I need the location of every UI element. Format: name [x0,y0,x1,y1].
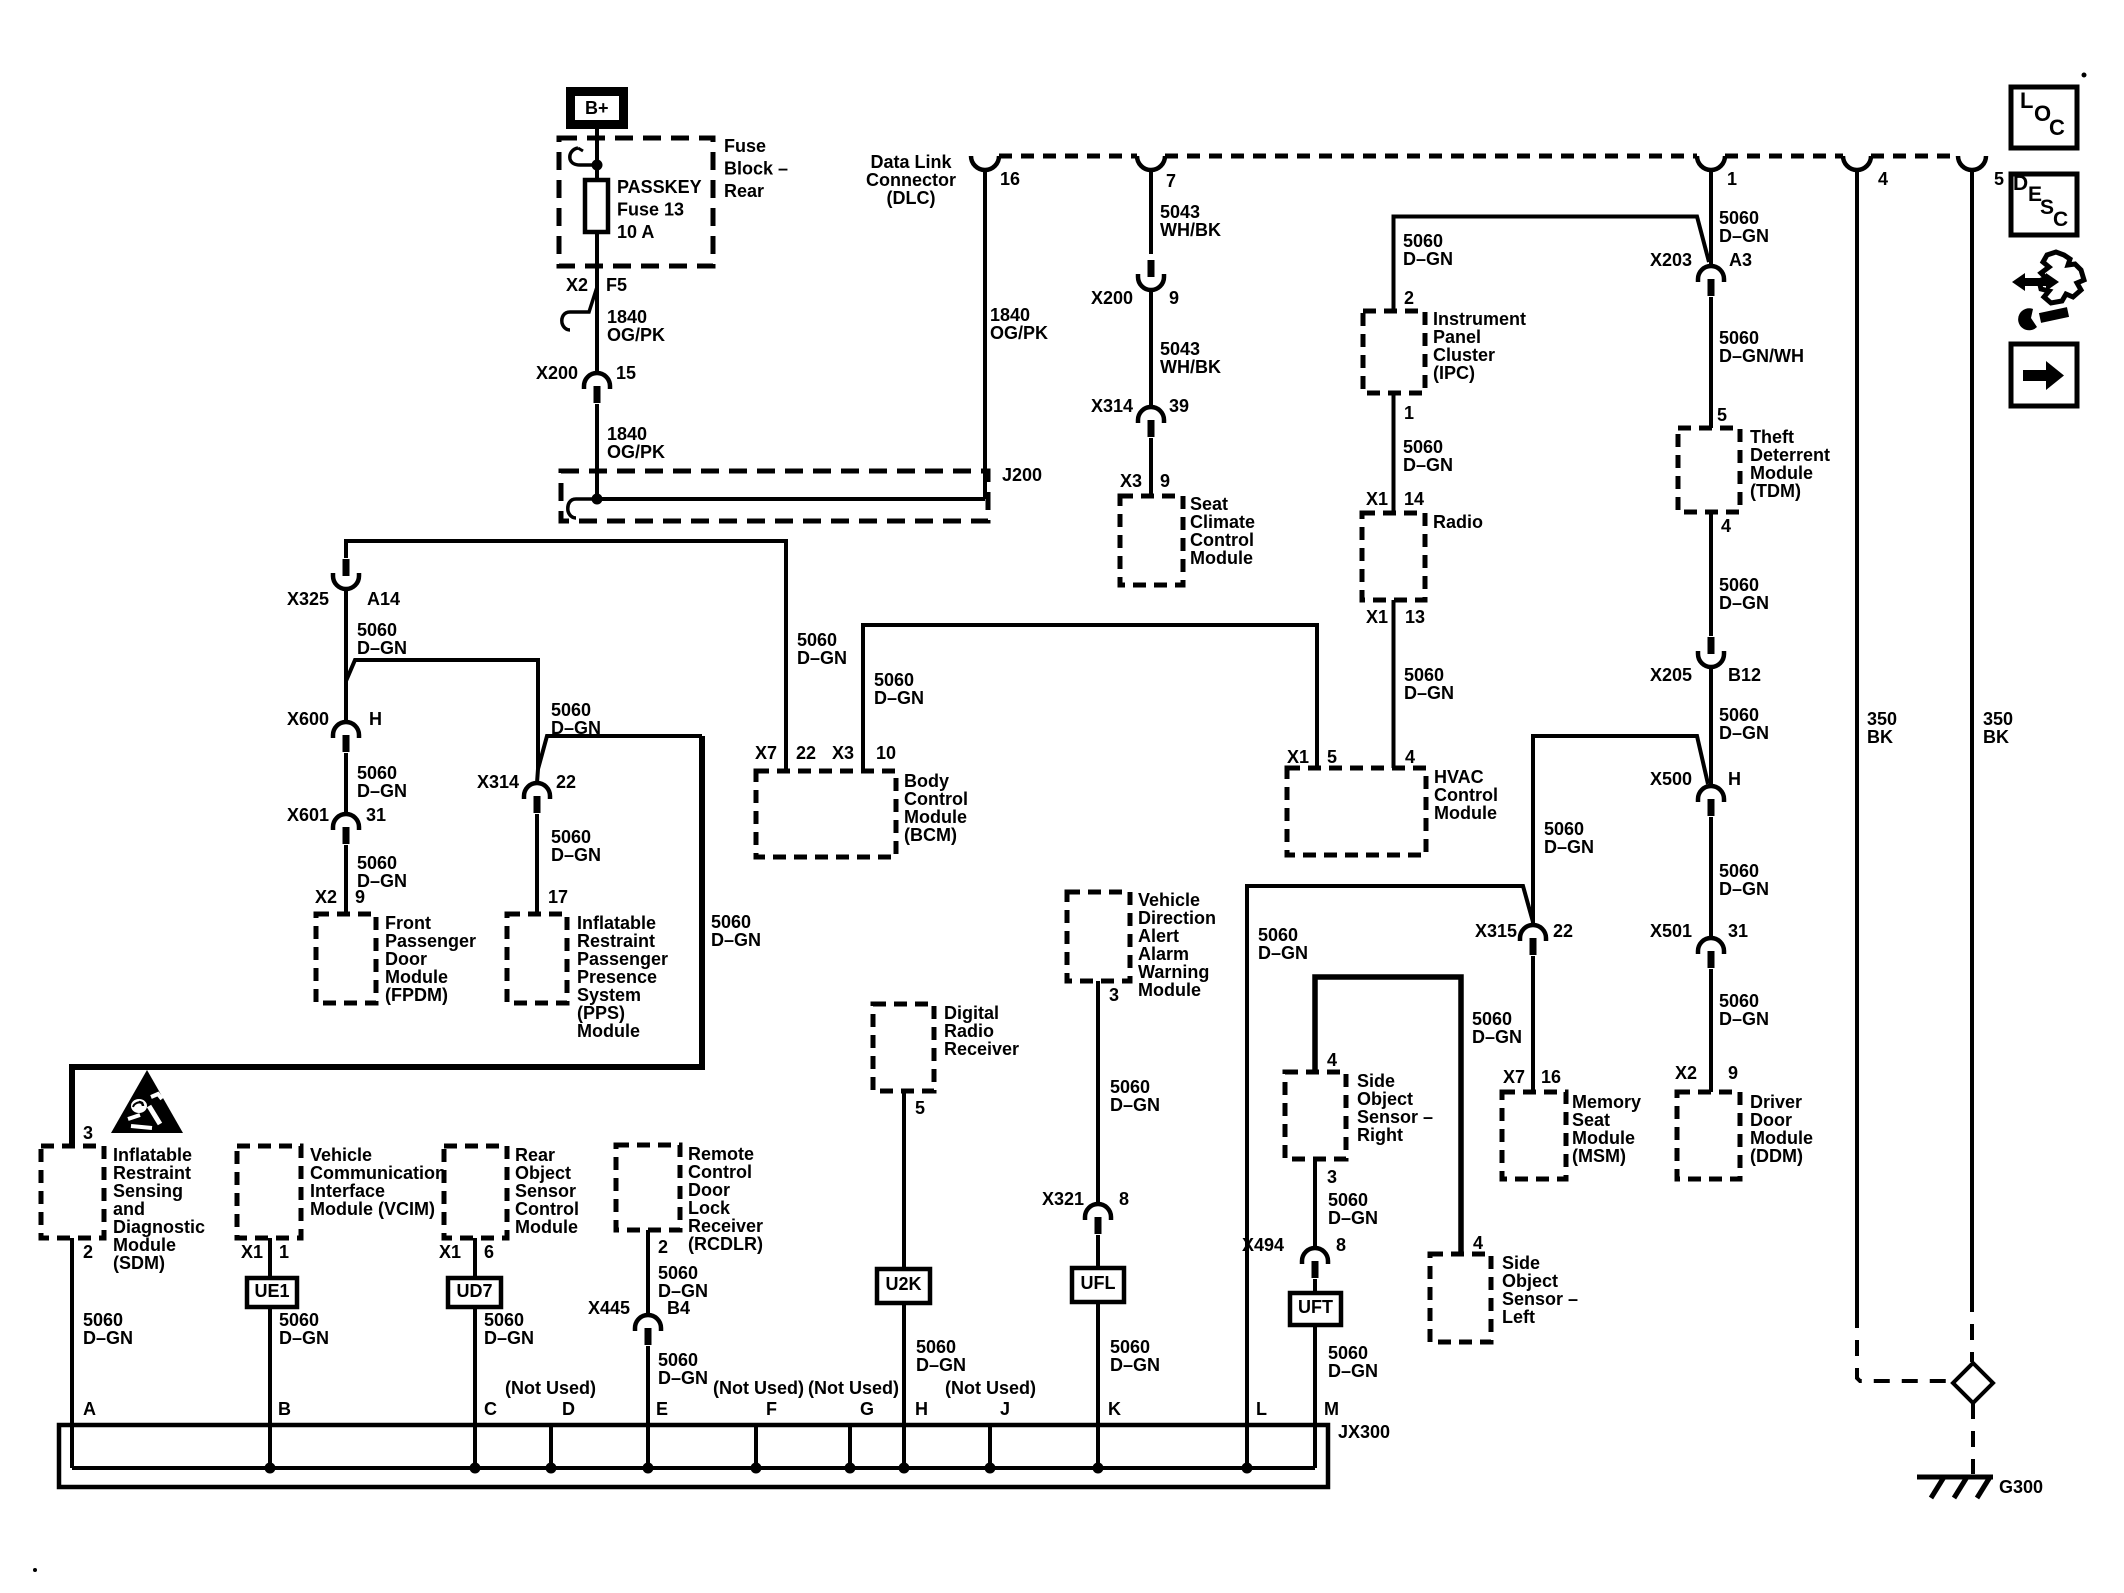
svg-text:D: D [2013,172,2028,195]
clip connector at fuse block feed [570,148,597,165]
wire DRR to U2K [902,1091,906,1269]
svg-text:Seat: Seat [1572,1110,1610,1130]
wire X601 to FPDM [344,845,348,914]
svg-text:A3: A3 [1729,250,1752,270]
wire X500 branch to X315 [1533,736,1708,925]
wire DLC7 to X200 [1149,170,1153,254]
wire label 5060 D-GN [1110,1077,1160,1115]
wire label 5060 D-GN [1328,1190,1378,1228]
svg-text:5060: 5060 [484,1310,524,1330]
svg-text:5060: 5060 [551,700,591,720]
svg-text:Object: Object [1502,1271,1558,1291]
wire DLC5 ground run 350 BK [1970,170,1974,1362]
svg-text:Panel: Panel [1433,327,1481,347]
svg-text:B4: B4 [667,1298,690,1318]
svg-text:C: C [484,1399,497,1419]
module HVAC Control Module [1287,767,1498,855]
icon data link communication [2012,252,2084,330]
module Seat Climate Control Module [1120,494,1255,585]
svg-text:5060: 5060 [916,1337,956,1357]
wire X200 to J200 [595,404,599,499]
svg-text:B12: B12 [1728,665,1761,685]
svg-text:6: 6 [484,1242,494,1262]
wire X315 to MSM [1531,956,1535,1092]
wire X314 to PPS [535,814,539,914]
inline connector X494 pin 8 [1242,1235,1346,1278]
svg-text:Data Link: Data Link [870,152,952,172]
svg-text:Radio: Radio [1433,512,1483,532]
module Digital Radio Receiver [873,1003,1019,1091]
pin label 4 [1473,1233,1483,1253]
svg-text:B: B [278,1399,291,1419]
wire DLC4 ground run 350 BK [1857,170,1952,1381]
svg-text:Control: Control [904,789,968,809]
svg-text:D–GN: D–GN [1404,683,1454,703]
bus stub J [988,1425,992,1468]
svg-text:Module: Module [1750,463,1813,483]
svg-text:D–GN: D–GN [1472,1027,1522,1047]
svg-text:A14: A14 [367,589,400,609]
svg-text:Fuse: Fuse [724,136,766,156]
wire X600 to X601 [344,753,348,814]
wire label 5060 D-GN [357,763,407,801]
module Instrument Panel Cluster IPC [1363,309,1526,393]
svg-text:Module: Module [385,967,448,987]
svg-text:D–GN: D–GN [1328,1208,1378,1228]
wire VDAAWM to X321 [1096,981,1100,1204]
svg-text:J200: J200 [1002,465,1042,485]
svg-text:Sensing: Sensing [113,1181,183,1201]
wire label 5060 D-GN [1472,1009,1522,1047]
svg-text:Module: Module [113,1235,176,1255]
svg-text:HVAC: HVAC [1434,767,1484,787]
svg-text:4: 4 [1721,516,1731,536]
wire X205 to X500 [1709,667,1713,786]
svg-text:X7: X7 [755,743,777,763]
svg-text:X203: X203 [1650,250,1692,270]
svg-text:JX300: JX300 [1338,1422,1390,1442]
svg-text:(BCM): (BCM) [904,825,957,845]
wire X314 to seat climate module [1149,438,1153,494]
svg-text:(Not Used): (Not Used) [945,1378,1036,1398]
svg-text:WH/BK: WH/BK [1160,220,1221,240]
svg-text:D–GN: D–GN [1719,879,1769,899]
wire label 5060 D-GN [1719,575,1769,613]
svg-text:7: 7 [1166,171,1176,191]
svg-text:5043: 5043 [1160,202,1200,222]
pin label 2 [83,1242,93,1262]
bus pin letters [83,1399,1339,1419]
RPO code UFT [1290,1293,1341,1325]
svg-text:X314: X314 [477,772,519,792]
svg-text:X200: X200 [536,363,578,383]
svg-text:D–GN: D–GN [1403,455,1453,475]
wire label 350 BK [1983,709,2013,747]
wire diamond to ground [1971,1403,1975,1474]
svg-text:Fuse 13: Fuse 13 [617,200,684,220]
svg-text:13: 13 [1405,607,1425,627]
svg-text:Digital: Digital [944,1003,999,1023]
svg-text:E: E [656,1399,668,1419]
svg-text:D–GN: D–GN [1719,593,1769,613]
wire label 5060 D-GN [1719,991,1769,1029]
pin label X1 1 [241,1242,289,1262]
wire UD7 to bus C [473,1307,477,1468]
wire SDM to bus A [70,1238,74,1468]
svg-text:5060: 5060 [1719,328,1759,348]
svg-text:5060: 5060 [711,912,751,932]
svg-text:Alarm: Alarm [1138,944,1189,964]
svg-text:Front: Front [385,913,431,933]
stray dot bottom left [33,1568,37,1572]
icon LOC box [2011,87,2077,148]
svg-text:Seat: Seat [1190,494,1228,514]
svg-text:4: 4 [1405,747,1415,767]
svg-text:22: 22 [556,772,576,792]
svg-text:Rear: Rear [724,181,764,201]
wire label 5060 D-GN [658,1350,708,1388]
junction J200 [592,494,603,505]
svg-text:Module: Module [1434,803,1497,823]
svg-text:Receiver: Receiver [688,1216,763,1236]
svg-text:Driver: Driver [1750,1092,1802,1112]
svg-text:Restraint: Restraint [577,931,655,951]
inline connector X314 pin 39 [1091,396,1189,437]
wire UFL to bus K [1096,1302,1100,1468]
svg-text:G300: G300 [1999,1477,2043,1497]
svg-text:5060: 5060 [1404,665,1444,685]
splice pack J200 dashed box [561,465,1042,521]
wire U2K to bus H [902,1303,906,1468]
wire fuse to X200 [595,232,599,373]
svg-text:L: L [2020,88,2033,113]
wire DLC pin16 drop [983,170,987,499]
inline connector X314 pin 22 [477,772,576,813]
svg-text:5060: 5060 [658,1263,698,1283]
pin label X7 16 [1503,1067,1561,1087]
wire bus L to X315 [1247,886,1533,1468]
svg-text:Side: Side [1357,1071,1395,1091]
bus stub G [848,1425,852,1468]
svg-text:D–GN: D–GN [1258,943,1308,963]
pin label 3 [1109,985,1119,1005]
bus stub D [549,1425,553,1468]
svg-text:UFL: UFL [1081,1273,1116,1293]
inline connector X601 pin 31 [287,805,386,844]
svg-text:4: 4 [1473,1233,1483,1253]
svg-text:D–GN: D–GN [1719,226,1769,246]
svg-text:Side: Side [1502,1253,1540,1273]
svg-text:Theft: Theft [1750,427,1794,447]
svg-text:X2: X2 [315,887,337,907]
svg-text:X1: X1 [1366,489,1388,509]
inline connector X600 pin H [287,709,382,752]
svg-text:Receiver: Receiver [944,1039,1019,1059]
svg-text:C: C [2049,115,2065,140]
pin label 3 [1327,1167,1337,1187]
svg-text:F: F [766,1399,777,1419]
svg-text:5060: 5060 [1544,819,1584,839]
bus stub F [754,1425,758,1468]
svg-text:D–GN: D–GN [1110,1095,1160,1115]
wire label 5060 D-GN [1328,1343,1378,1381]
svg-text:WH/BK: WH/BK [1160,357,1221,377]
svg-text:X200: X200 [1091,288,1133,308]
svg-text:9: 9 [1160,471,1170,491]
svg-text:X501: X501 [1650,921,1692,941]
module Theft Deterrent Module TDM [1678,427,1830,512]
svg-text:Sensor –: Sensor – [1357,1107,1433,1127]
svg-text:D–GN: D–GN [1719,1009,1769,1029]
pin label 4 [1721,516,1731,536]
svg-text:BK: BK [1867,727,1893,747]
svg-text:5060: 5060 [357,763,397,783]
wire SOS-R to X494 [1313,1159,1317,1248]
svg-text:350: 350 [1867,709,1897,729]
junction at fuse block feed [592,160,603,171]
svg-text:Door: Door [688,1180,730,1200]
svg-text:Memory: Memory [1572,1092,1641,1112]
inline connector X501 pin 31 [1650,921,1748,968]
wire label 5060 D-GN [1719,861,1769,899]
splice diamond [1953,1363,1993,1403]
fuse PASSKEY Fuse 13 10 A [585,177,702,242]
ground G300 [1917,1477,2043,1498]
svg-text:X7: X7 [1503,1067,1525,1087]
icon forward arrow box [2011,344,2077,406]
svg-text:Module: Module [1750,1128,1813,1148]
inline connector X203 pin A3 [1650,250,1752,296]
svg-text:5060: 5060 [1110,1337,1150,1357]
stray dot top right [2082,73,2087,78]
wire label 5060 D-GN [1403,437,1453,475]
svg-text:U2K: U2K [885,1274,921,1294]
svg-text:Module (VCIM): Module (VCIM) [310,1199,435,1219]
wire label 5060 D-GN/WH [1719,328,1804,366]
svg-text:Diagnostic: Diagnostic [113,1217,205,1237]
svg-text:Control: Control [1434,785,1498,805]
svg-text:X494: X494 [1242,1235,1284,1255]
svg-text:X205: X205 [1650,665,1692,685]
svg-text:2: 2 [83,1242,93,1262]
power symbol B+ [571,92,624,125]
svg-text:Interface: Interface [310,1181,385,1201]
wire X325 to BCM X7-22 [346,541,786,771]
svg-text:9: 9 [355,887,365,907]
svg-text:D–GN: D–GN [1110,1355,1160,1375]
svg-text:X500: X500 [1650,769,1692,789]
wire label 5060 D-GN [711,912,761,950]
svg-text:Module: Module [577,1021,640,1041]
wire label 5060 D-GN [551,827,601,865]
inline connector X200 pin 9 [1091,260,1179,308]
pin labels HVAC X1 5 4 [1287,747,1415,767]
svg-text:X2: X2 [566,275,588,295]
wire label 5060 D-GN [279,1310,329,1348]
svg-text:D–GN: D–GN [797,648,847,668]
svg-text:Climate: Climate [1190,512,1255,532]
pin label X2 9 [1675,1063,1738,1083]
svg-text:5060: 5060 [797,630,837,650]
svg-text:(SDM): (SDM) [113,1253,165,1273]
wire B+ to fuse [595,129,599,181]
svg-text:5060: 5060 [1110,1077,1150,1097]
svg-text:3: 3 [1109,985,1119,1005]
svg-text:5060: 5060 [551,827,591,847]
module Remote Control Door Lock Receiver RCDLR [616,1144,763,1254]
svg-text:5060: 5060 [1719,208,1759,228]
svg-text:5060: 5060 [1258,925,1298,945]
svg-text:5: 5 [1717,405,1727,425]
wire X494 to UFT [1313,1279,1317,1293]
svg-text:5060: 5060 [1403,231,1443,251]
wire label 5060 D-GN [1404,665,1454,703]
svg-text:Module: Module [1138,980,1201,1000]
wire label 5060 D-GN [1110,1337,1160,1375]
inline connector X315 pin 22 [1475,921,1573,955]
svg-text:Sensor: Sensor [515,1181,576,1201]
svg-text:1: 1 [1727,169,1737,189]
svg-text:5060: 5060 [1719,575,1759,595]
svg-text:Sensor –: Sensor – [1502,1289,1578,1309]
svg-text:Lock: Lock [688,1198,731,1218]
pin label 2 [1404,288,1414,308]
wire X314 junction to SDM feed [538,736,702,769]
svg-text:(PPS): (PPS) [577,1003,625,1023]
clip connector X2-F5 [562,287,597,330]
svg-text:(Not Used): (Not Used) [808,1378,899,1398]
svg-text:9: 9 [1728,1063,1738,1083]
svg-text:Vehicle: Vehicle [310,1145,372,1165]
wire label 5060 D-GN [1403,231,1453,269]
svg-text:Module: Module [1190,548,1253,568]
svg-text:X600: X600 [287,709,329,729]
svg-text:1: 1 [279,1242,289,1262]
svg-text:(Not Used): (Not Used) [505,1378,596,1398]
svg-text:1: 1 [1404,403,1414,423]
svg-text:Vehicle: Vehicle [1138,890,1200,910]
svg-text:X314: X314 [1091,396,1133,416]
svg-text:D–GN: D–GN [874,688,924,708]
wire X445 to bus E [646,1346,650,1468]
DLC dotted bus wire [999,154,1958,159]
svg-text:16: 16 [1000,169,1020,189]
wire X203 to TDM [1709,297,1713,428]
wire X200 to X314 [1149,290,1153,407]
wire label 5060 D-GN [357,853,407,891]
module Inflatable Restraint PPS Module [507,913,668,1041]
svg-text:OG/PK: OG/PK [607,442,665,462]
module Body Control Module BCM [756,771,968,857]
svg-text:D–GN: D–GN [658,1368,708,1388]
wire X325 to X600 [344,589,348,722]
svg-text:39: 39 [1169,396,1189,416]
svg-text:(Not Used): (Not Used) [713,1378,804,1398]
wire Radio to HVAC [1392,600,1396,768]
DLC terminal 5 [1958,156,2004,189]
svg-text:(RCDLR): (RCDLR) [688,1234,763,1254]
module Driver Door Module DDM [1677,1092,1813,1179]
svg-text:System: System [577,985,641,1005]
svg-text:5060: 5060 [357,853,397,873]
inline connector X445 pin B4 [588,1298,690,1345]
svg-text:X3: X3 [832,743,854,763]
svg-text:16: 16 [1541,1067,1561,1087]
svg-text:X321: X321 [1042,1189,1084,1209]
svg-text:D–GN: D–GN [484,1328,534,1348]
svg-text:14: 14 [1404,489,1424,509]
svg-text:Module: Module [515,1217,578,1237]
svg-text:4: 4 [1878,169,1888,189]
wire IPC to Radio [1392,393,1396,513]
svg-text:BK: BK [1983,727,2009,747]
svg-text:Inflatable: Inflatable [113,1145,192,1165]
svg-text:2: 2 [1404,288,1414,308]
wire J200 bus [597,497,985,501]
svg-text:1840: 1840 [607,307,647,327]
inline connector X500 pin H [1650,769,1741,816]
wire BCM X3-10 to HVAC X1-5 [863,625,1317,771]
svg-text:9: 9 [1169,288,1179,308]
svg-text:OG/PK: OG/PK [990,323,1048,343]
wire label 5060 D-GN [357,620,407,658]
svg-text:5060: 5060 [1719,861,1759,881]
svg-text:D–GN: D–GN [1328,1361,1378,1381]
inline connector X325 pin A14 [287,559,400,609]
svg-text:F5: F5 [606,275,627,295]
svg-text:X325: X325 [287,589,329,609]
svg-text:Door: Door [1750,1110,1792,1130]
wire label 1840 OG/PK [607,307,665,345]
svg-text:350: 350 [1983,709,2013,729]
svg-text:B+: B+ [585,98,609,118]
DLC terminal 7 [1137,156,1176,191]
svg-text:Object: Object [1357,1089,1413,1109]
pin label 17 [548,887,568,907]
svg-text:X3: X3 [1120,471,1142,491]
svg-text:1840: 1840 [990,305,1030,325]
svg-text:D–GN: D–GN [83,1328,133,1348]
svg-text:Radio: Radio [944,1021,994,1041]
svg-text:5060: 5060 [1719,991,1759,1011]
module Vehicle Direction Alert Alarm Warning Module [1067,890,1216,1000]
wire heavy run to SDM [72,736,702,1146]
svg-text:5060: 5060 [83,1310,123,1330]
pin label X1 6 [439,1242,494,1262]
wire label 5060 D-GN [551,700,601,738]
wire ROSCM to UD7 [473,1238,477,1278]
svg-text:D–GN: D–GN [279,1328,329,1348]
svg-text:OG/PK: OG/PK [607,325,665,345]
svg-text:H: H [369,709,382,729]
svg-text:H: H [1728,769,1741,789]
not used labels [505,1378,1036,1398]
RPO code UE1 [247,1278,297,1307]
svg-text:D–GN: D–GN [357,781,407,801]
wire label 5060 D-GN [83,1310,133,1348]
wire label 5060 D-GN [484,1310,534,1348]
pin label X3 9 [1120,471,1170,491]
svg-text:5060: 5060 [279,1310,319,1330]
svg-text:X601: X601 [287,805,329,825]
wire label 5060 D-GN [916,1337,966,1375]
svg-text:Body: Body [904,771,949,791]
module Memory Seat Module MSM [1502,1092,1641,1179]
svg-text:Remote: Remote [688,1144,754,1164]
svg-text:G: G [860,1399,874,1419]
svg-text:D–GN: D–GN [1403,249,1453,269]
svg-text:Deterrent: Deterrent [1750,445,1830,465]
